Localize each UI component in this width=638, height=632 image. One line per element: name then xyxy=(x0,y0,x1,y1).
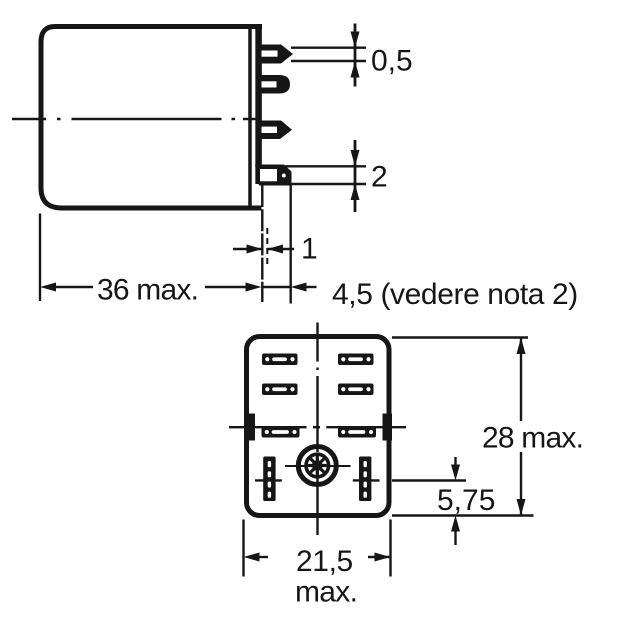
svg-text:36 max.: 36 max. xyxy=(97,274,198,307)
svg-text:0,5: 0,5 xyxy=(371,45,413,78)
dimension 5,75 arrows xyxy=(454,457,456,469)
dimension 1 line and arrows xyxy=(233,248,262,250)
contact slot row 1 right xyxy=(338,354,374,366)
central stud inner knurled circle xyxy=(306,454,329,477)
svg-text:2: 2 xyxy=(371,161,388,194)
contact slot row 2 left xyxy=(262,384,298,396)
left keying tab xyxy=(246,414,256,441)
relay body outline (side view) xyxy=(41,27,262,209)
svg-text:4,5 (vedere nota 2): 4,5 (vedere nota 2) xyxy=(332,278,578,311)
dimension 21,5 max. line and arrows xyxy=(244,553,260,562)
central stud horizontal centerline xyxy=(285,465,351,467)
central stud outer ring xyxy=(298,447,336,485)
dimension 4,5 line and arrows xyxy=(262,286,290,288)
28 max. top extension line xyxy=(392,336,528,338)
contact slot row 2 right xyxy=(338,384,374,396)
pin 4 + mounting flange xyxy=(255,165,292,186)
leg inner line (1 mm blade) xyxy=(266,228,268,266)
contact slot row 3 right xyxy=(338,427,376,438)
21,5 max. right extension line xyxy=(389,520,391,577)
dimension 28 max. line and arrows xyxy=(520,338,522,422)
28 max. / 5,75 shared bottom extension line xyxy=(392,514,534,516)
central stud spokes xyxy=(308,456,327,475)
body outer right edge xyxy=(255,25,262,185)
dimension 36 max. line and arrows xyxy=(40,283,56,292)
relay base outline (bottom view) xyxy=(247,337,390,516)
dimension 0,5 line and arrows xyxy=(354,24,357,87)
vertical slot left centerline xyxy=(255,479,282,481)
mounting leg left edge / extension line xyxy=(261,185,263,302)
horizontal centerline right stub xyxy=(389,426,406,428)
body inner flange line xyxy=(248,27,252,207)
horizontal centerline (side view) xyxy=(12,118,259,120)
svg-text:max.: max. xyxy=(295,576,357,609)
horizontal centerline left stub xyxy=(229,426,244,428)
dimension 2 line and arrows xyxy=(354,140,357,212)
right keying tab xyxy=(383,414,393,441)
pin 2 xyxy=(256,75,290,94)
horizontal centerline through row 3 xyxy=(255,426,383,428)
svg-text:28 max.: 28 max. xyxy=(482,422,583,455)
svg-text:5,75: 5,75 xyxy=(437,484,495,517)
dimension 2 extension lines xyxy=(285,165,366,167)
5,75 top extension line xyxy=(392,479,466,481)
21,5 max. left extension line xyxy=(242,520,244,577)
contact slot row 1 left xyxy=(262,354,298,366)
36 max. left extension line xyxy=(39,214,41,302)
vertical centerline (bottom view) xyxy=(316,323,318,536)
vertical slot right xyxy=(359,457,371,502)
dimension 0,5 extension lines xyxy=(291,47,366,49)
vertical slot left xyxy=(263,457,275,502)
svg-text:21,5: 21,5 xyxy=(296,545,353,578)
contact slot row 3 left xyxy=(262,427,300,438)
pin 1 (top) xyxy=(256,45,293,64)
mounting leg right edge / extension line xyxy=(290,185,292,304)
pin 3 (on centerline) xyxy=(256,121,292,140)
svg-text:1: 1 xyxy=(301,233,318,266)
central stud hub xyxy=(312,460,323,471)
vertical slot right centerline xyxy=(353,479,380,481)
